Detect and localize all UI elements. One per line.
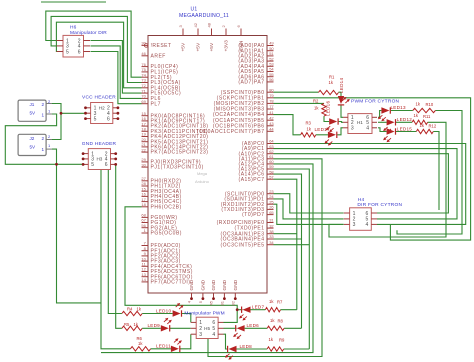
wire H6 pin6 to U1 PL7: [91, 52, 142, 104]
wire LED9 to H5 pin2: [170, 327, 191, 329]
svg-text:LED9: LED9: [148, 323, 161, 328]
wire H3 to R4: [108, 170, 122, 314]
U1 pin 15 PK0(ADC8PCINT16): [141, 111, 205, 119]
svg-text:+5V: +5V: [209, 42, 215, 51]
wire R7 to PC7 rail: [281, 309, 297, 311]
U1 pin 38 (OC3AAIN1)PE3: [220, 229, 274, 237]
U1 pin 11 PF4(ADC4TCK): [142, 262, 193, 270]
U1 pin 18 PH6(OC2B): [141, 202, 181, 210]
U1 pin 70 PL6: [141, 94, 161, 102]
LED LED7: [239, 307, 251, 321]
svg-text:H5: H5: [204, 326, 210, 331]
wire R10 rail to H4: [397, 111, 462, 235]
U1 pin 54 (AD5)PA5: [238, 67, 274, 75]
U1 pin 61 (A11)PC3: [239, 154, 275, 162]
LED LED15: [383, 128, 395, 142]
U1 power pin 2 +3V3: [221, 25, 229, 52]
wire LED15 to R12: [396, 131, 416, 133]
wire U1 PD0 to H4 pin1: [274, 194, 344, 213]
svg-text:6: 6: [107, 116, 110, 122]
svg-text:46: 46: [141, 51, 146, 56]
wire H5 pin6 to LED7: [224, 310, 238, 323]
svg-text:R8: R8: [278, 319, 284, 324]
U1 pin 78 (MOSIPCINT2)PB2: [214, 99, 275, 107]
resistor R4: [122, 311, 142, 315]
resistor R6: [130, 347, 150, 351]
resistor R9: [267, 347, 284, 351]
op-amp U1 MEGAARDUINO_11 body: [148, 36, 267, 294]
wire U1 PC0 to H4 pin4: [274, 144, 466, 225]
svg-text:H2: H2: [99, 106, 105, 111]
svg-text:PJ1(TXD3PCINT10): PJ1(TXD3PCINT10): [151, 165, 204, 171]
U1 pin 7 PF0(ADC0): [142, 241, 181, 249]
svg-text:AREF: AREF: [151, 53, 166, 59]
wire LED12 to R11: [396, 121, 412, 123]
connector J1: [18, 99, 52, 121]
svg-text:2: 2: [42, 136, 45, 141]
svg-text:PL7: PL7: [151, 101, 161, 107]
resistor R11: [412, 120, 428, 124]
LED LED6: [233, 325, 245, 339]
U1 pin 63 (A9)PC1: [242, 144, 275, 152]
svg-text:LED6: LED6: [247, 323, 260, 328]
svg-text:41: 41: [269, 110, 274, 115]
U1 pin 53 (AD4)PA4: [238, 62, 274, 70]
svg-text:(OC0AOC1CPCINT7)PB7: (OC0AOC1CPCINT7)PB7: [197, 129, 265, 135]
wire U1 PH6 to LED7 node: [125, 207, 237, 310]
svg-text:LED16: LED16: [326, 101, 331, 116]
svg-text:4: 4: [366, 222, 369, 228]
svg-text:78: 78: [269, 99, 274, 104]
U1 pin 42 (OC1APCINT5)PB5: [213, 115, 275, 123]
wire U1 PB1 wrap to H4: [274, 98, 471, 240]
junction 5V node: [60, 112, 63, 115]
U1 ground pin 4 GND: [187, 279, 195, 303]
svg-text:PG5(OC0B): PG5(OC0B): [151, 231, 182, 237]
U1 pin 9 PF2(ADC2): [142, 251, 181, 259]
wire H6 pin2 to U1 PL5: [91, 41, 142, 94]
junction LED7 node: [236, 308, 239, 311]
svg-text:+3V3: +3V3: [224, 40, 230, 52]
LED LED12: [383, 119, 395, 133]
svg-text:42: 42: [193, 22, 198, 27]
resistor R2: [322, 103, 326, 116]
LED LED16: [326, 118, 338, 132]
wire U1 PB4 to R3: [274, 115, 301, 135]
wire H3 to R6: [101, 170, 130, 349]
svg-text:5V: 5V: [30, 145, 37, 150]
wire H6 pin1 to U1 PL2: [46, 11, 142, 77]
svg-text:4: 4: [212, 332, 215, 338]
header H5 Manipulator PWM: [191, 317, 224, 338]
svg-text:PK7(ADC15PCINT23): PK7(ADC15PCINT23): [151, 150, 209, 156]
svg-text:H4: H4: [358, 197, 365, 203]
U1 pin 13 PF6(ADC6TDO): [141, 272, 193, 280]
svg-text:65: 65: [269, 210, 274, 215]
svg-text:71: 71: [141, 88, 146, 93]
U1 pin 73 PL3(OC5A): [141, 78, 180, 86]
U1 pin 76 PL0(ICP4): [141, 62, 178, 70]
svg-text:+VIN: +VIN: [239, 40, 245, 51]
wire top net segment: [41, 1, 106, 3]
svg-text:GND: GND: [189, 279, 195, 290]
svg-text:J2: J2: [30, 136, 35, 141]
U1 pin 71 PL5(OC5C): [141, 88, 181, 96]
svg-text:5: 5: [66, 49, 69, 55]
U1 ground pin 81 GND: [220, 279, 228, 305]
svg-text:33: 33: [269, 234, 274, 239]
wire U1 PC3 to H5: [208, 159, 322, 357]
wire R8 to PC6 rail: [284, 327, 301, 329]
svg-text:LED8: LED8: [240, 344, 253, 349]
wire 5V node to H2 pin3: [61, 112, 86, 114]
wire R1 to LED14: [339, 92, 342, 96]
U1 pin 65 (T0)PD7: [242, 210, 274, 218]
wire R3 to LED17: [316, 134, 328, 136]
connector J2: [18, 134, 52, 156]
U1 pin 49 (AD0)PA0: [238, 41, 274, 49]
svg-text:VCC HEADER: VCC HEADER: [82, 95, 116, 101]
svg-text:45: 45: [209, 300, 214, 305]
svg-text:6: 6: [105, 162, 108, 168]
svg-text:79: 79: [269, 93, 274, 98]
U1 pin 59 (A13)PC5: [239, 164, 275, 172]
svg-text:77: 77: [269, 104, 274, 109]
svg-text:H3: H3: [96, 157, 102, 162]
U1 pin 77 (MISOPCINT3)PB3: [214, 104, 275, 112]
wire J1 pin1 to H3 pin5 GND: [5, 114, 83, 164]
svg-text:2: 2: [42, 102, 45, 107]
U1 pin 56 (AD7)PA7: [238, 77, 274, 85]
svg-text:73: 73: [141, 78, 146, 83]
resistor R10: [413, 108, 436, 112]
svg-text:LED10: LED10: [156, 308, 171, 313]
U1 pin 23 (SCLINT0)PD0: [225, 189, 275, 197]
U1 pin 20 PK5(ADC13PCINT21): [141, 137, 208, 145]
wire R9 to PC5 rail: [284, 348, 310, 350]
wire LED16 to H1 pin2: [339, 121, 343, 124]
wire U1 PD1 to H4 pin2: [274, 199, 344, 219]
header H3 GND HEADER: [82, 149, 117, 170]
U1 pin 62 (A10)PC2: [239, 149, 275, 157]
svg-text:76: 76: [141, 62, 146, 67]
wire U1 PC1 to H4 pin5: [274, 149, 458, 219]
U1 pin 33 (OC3BAIN4)PE4: [220, 234, 274, 242]
wire U1 PB0 to R1: [274, 91, 319, 93]
svg-text:PWM FOR CYTRON: PWM FOR CYTRON: [351, 99, 400, 105]
svg-text:Manipulator DIR: Manipulator DIR: [70, 30, 107, 36]
svg-text:6: 6: [78, 49, 81, 55]
U1 power pin 42 +5V: [193, 22, 201, 51]
U1 pin 27 PH0(RXD2): [141, 176, 181, 184]
svg-text:LED13: LED13: [391, 105, 406, 110]
U1 power pin 3 +5V: [178, 25, 186, 52]
svg-text:42: 42: [269, 115, 274, 120]
U1 pin 60 (A12)PC4: [239, 159, 275, 167]
U1 pin 29 PJ0(RXD3PCINT9): [141, 157, 201, 165]
wire R2 to LED16: [324, 116, 329, 121]
resistor R1: [318, 90, 338, 94]
wire U1 PC7 down: [274, 179, 297, 310]
U1 pin 21 PK6(ADC14PCINT22): [141, 142, 208, 150]
svg-text:(OC3CINT5)PE5: (OC3CINT5)PE5: [220, 242, 264, 248]
LED LED14: [338, 96, 350, 105]
resistor R5: [122, 326, 142, 330]
svg-text:R12: R12: [429, 123, 437, 128]
wire U1 PC4 to GND rail: [101, 164, 313, 353]
wire U1 PC2 to H4 pin6: [274, 154, 449, 213]
wire GND rail left: [57, 164, 102, 303]
svg-text:R1: R1: [329, 75, 335, 80]
svg-text:74: 74: [141, 72, 146, 77]
U1 pin 22 PK7(ADC15PCINT23): [141, 147, 208, 155]
svg-text:R4: R4: [127, 307, 133, 312]
resistor R7: [265, 308, 280, 312]
U1 pin 75 PL1(ICP5): [141, 67, 178, 75]
svg-text:30: 30: [141, 162, 146, 167]
U1 pin 31 (RXD0PCIN8)PE0: [217, 218, 275, 226]
svg-text:+5V: +5V: [181, 42, 187, 51]
wire J1 pin2 to J2 pin2: [52, 104, 61, 140]
svg-text:U1: U1: [191, 7, 198, 13]
wire H5 pin5 to LED6: [224, 327, 237, 329]
wire LED14 to H1 pin1: [341, 105, 343, 118]
LED LED11: [171, 338, 182, 352]
svg-text:70: 70: [141, 94, 146, 99]
wire H1 pin4 to LED15: [378, 128, 387, 132]
wire R5 to LED9: [142, 327, 161, 329]
svg-text:5: 5: [94, 116, 97, 122]
U1 pin 56 PG2(ALE): [141, 223, 177, 231]
wire J2 pin1 to GND row: [52, 149, 57, 164]
U1 pin 1 PG5(OC0B): [142, 228, 182, 236]
svg-text:80: 80: [269, 87, 274, 92]
svg-text:H1: H1: [357, 120, 363, 125]
svg-text:81: 81: [220, 300, 225, 305]
U1 pin 17 PH5(OC4C): [141, 197, 182, 205]
U1 pin 12 PF5(ADC5TMS): [141, 267, 193, 275]
U1 pin 55 (AD6)PA6: [238, 72, 274, 80]
wire H1 pin6 to LED13: [378, 111, 381, 118]
U1 pin 19 PK4(ADC12PCINT20): [141, 132, 208, 140]
U1 pin 51 (AD2)PA2: [238, 51, 274, 59]
svg-text:J1: J1: [30, 102, 35, 107]
junction GND rail: [55, 163, 58, 166]
svg-text:57: 57: [269, 174, 274, 179]
U1 power pin 48 +5V: [207, 22, 215, 51]
svg-text:1: 1: [42, 113, 45, 118]
U1 pin 10 PF3(ADC3): [141, 256, 180, 264]
wire U1 PC6 down: [274, 174, 302, 328]
U1 pin 28 PH1(TXD2): [141, 181, 180, 189]
svg-text:LED17: LED17: [315, 127, 330, 132]
svg-text:24: 24: [269, 194, 274, 199]
svg-text:LED14: LED14: [339, 78, 344, 93]
svg-text:1: 1: [42, 147, 45, 152]
wire R11 rail to H4: [329, 122, 446, 237]
svg-text:3: 3: [353, 222, 356, 228]
U1 pin 72 PL4(OC5B): [141, 83, 180, 91]
wire H1 pin5 to LED12: [378, 121, 387, 123]
wire H5 pin4 to LED8: [224, 334, 229, 349]
wire node to LED7: [237, 309, 242, 311]
U1 pin 80 (SSPCINT0)PB0: [221, 87, 275, 95]
U1 pin 41 (OC2APCINT4)PB4: [213, 110, 275, 118]
U1 pin 26 (TXD1INT3)PD3: [221, 205, 274, 213]
svg-text:31: 31: [269, 218, 274, 223]
U1 pin 25 (RXD1INT2)PD2: [221, 199, 275, 207]
wire LED11 to H5 pin3: [180, 334, 191, 349]
svg-text:R7: R7: [277, 299, 283, 304]
U1 power pin 6 +VIN: [236, 25, 244, 52]
wire LED10 to H5 pin1: [182, 314, 191, 323]
header H2 VCC HEADER: [84, 103, 119, 124]
U1 pin 32 (TXD0)PE1: [234, 223, 274, 231]
svg-text:34: 34: [269, 240, 274, 245]
svg-text:3: 3: [199, 332, 202, 338]
svg-text:LED12: LED12: [397, 117, 412, 122]
svg-text:44: 44: [269, 127, 274, 132]
wire H3 pin6 to R5: [116, 164, 122, 328]
svg-text:GND: GND: [200, 279, 206, 290]
svg-text:GND: GND: [233, 279, 239, 290]
U1 pin 30 PJ1(TXD3PCINT10): [141, 162, 203, 170]
svg-text:69: 69: [141, 99, 146, 104]
U1 pin 46 AREF: [141, 51, 165, 59]
wire H6 pin3 to U1 PL3: [51, 16, 141, 82]
svg-text:Mega: Mega: [197, 171, 208, 176]
U1 pin 74 PL2(T5): [141, 72, 172, 80]
U1 pin 67 PG1(!RD): [141, 218, 176, 226]
U1 pin 16 PH4(OC4B): [141, 192, 181, 200]
U1 ground pin 45 GND: [209, 279, 217, 305]
svg-text:R2: R2: [313, 99, 319, 104]
U1 pin 30 !RESET: [141, 41, 171, 49]
wire U1 PE4: [274, 238, 302, 240]
svg-text:R3: R3: [306, 121, 312, 126]
wire U1 PE3: [274, 233, 297, 235]
wire R6 to LED11: [151, 348, 171, 350]
U1 pin 15 PH3(OC4A): [141, 186, 181, 194]
svg-text:5: 5: [91, 162, 94, 168]
svg-text:LED7: LED7: [252, 305, 265, 310]
resistor R3: [301, 133, 316, 137]
U1 ground pin 5 GND: [198, 279, 206, 303]
svg-text:48: 48: [207, 22, 212, 27]
U1 ground pin 82 GND: [231, 279, 239, 305]
U1 pin 79 (SCKPCINT1)PB1: [217, 93, 275, 101]
wire LED7 to R7: [251, 309, 266, 311]
svg-text:+5V: +5V: [196, 42, 202, 51]
LED LED13: [378, 107, 390, 121]
svg-text:PH6(OC2B): PH6(OC2B): [151, 204, 182, 210]
svg-text:82: 82: [231, 300, 236, 305]
svg-text:R10: R10: [426, 102, 434, 107]
svg-text:Arduino: Arduino: [195, 179, 210, 184]
resistor R12: [416, 129, 433, 133]
wire H6 pin5 to U1 PL4: [56, 22, 141, 88]
wire U1 PD2 to H4 pin3: [274, 204, 344, 224]
U1 pin 69 PL7: [141, 99, 161, 107]
svg-text:GND: GND: [211, 279, 217, 290]
LED LED10: [173, 303, 184, 317]
wire U1 PC5 down: [274, 169, 310, 349]
U1 pin 18 PK3(ADC11PCINT19): [141, 127, 208, 135]
svg-text:18: 18: [141, 202, 146, 207]
header H1 PWM FOR CYTRON: [343, 114, 377, 134]
wire R4 to LED10: [142, 313, 172, 315]
U1 pin 57 (A15)PC7: [239, 174, 275, 182]
svg-text:30: 30: [141, 41, 146, 46]
wire U1 PB2 to R2: [274, 102, 325, 104]
svg-text:32: 32: [269, 223, 274, 228]
svg-text:GND: GND: [222, 279, 228, 290]
svg-text:38: 38: [269, 229, 274, 234]
wire LED13 to R10: [391, 110, 413, 112]
wire U1 PE5: [274, 244, 310, 246]
U1 pin 24 (SDAINT1)PD1: [224, 194, 274, 202]
wire LED17 to H1 pin3: [337, 128, 343, 135]
svg-text:R5: R5: [124, 322, 130, 327]
svg-text:3: 3: [351, 126, 354, 132]
U1 pin 52 (AD3)PA3: [238, 56, 274, 64]
svg-text:14: 14: [141, 277, 146, 282]
svg-text:MEGAARDUINO_11: MEGAARDUINO_11: [179, 13, 229, 19]
svg-text:72: 72: [141, 83, 146, 88]
svg-text:!RESET: !RESET: [151, 43, 172, 49]
U1 pin 16 PK1(ADC9PCINT17): [141, 116, 205, 124]
U1 pin 44 (OC0AOC1CPCINT7)PB7: [197, 127, 275, 135]
wire R12 rail: [433, 132, 439, 211]
svg-text:75: 75: [141, 67, 146, 72]
svg-text:R11: R11: [423, 114, 431, 119]
LED LED9: [161, 318, 172, 332]
wire H6 pin4 to U1 PL6: [91, 46, 142, 99]
header H4 DIR FOR CYTRON: [344, 208, 377, 231]
header H6 Manipulator DIR: [57, 35, 91, 57]
svg-text:43: 43: [269, 121, 274, 126]
svg-text:LED11: LED11: [156, 344, 171, 349]
svg-text:Manipulator PWM: Manipulator PWM: [184, 311, 224, 317]
resistor R8: [267, 326, 284, 330]
svg-text:LED15: LED15: [397, 126, 412, 131]
svg-text:H6: H6: [70, 25, 77, 31]
svg-text:(AD7)PA7: (AD7)PA7: [238, 80, 264, 86]
U1 pin 43 (OC1BPCINT6)PB6: [213, 121, 275, 129]
svg-text:(T0)PD7: (T0)PD7: [242, 212, 264, 218]
U1 pin 68 PG0(!WR): [141, 213, 177, 221]
wire LED8 to R9: [237, 348, 268, 350]
U1 pin 8 PF1(ADC1): [142, 246, 181, 254]
U1 pin 34 (OC3CINT5)PE5: [220, 240, 274, 248]
U1 pin 58 (A14)PC6: [239, 169, 275, 177]
svg-text:PF7(ADC7TDI): PF7(ADC7TDI): [151, 280, 191, 286]
LED LED8: [225, 346, 237, 360]
svg-text:56: 56: [269, 77, 274, 82]
svg-text:GND HEADER: GND HEADER: [82, 141, 117, 147]
svg-text:R9: R9: [279, 338, 285, 343]
svg-text:4: 4: [366, 126, 369, 132]
LED LED17: [324, 132, 336, 146]
U1 pin 17 PK2(ADC10PCINT18): [141, 121, 208, 129]
svg-text:22: 22: [141, 147, 146, 152]
U1 pin 64 (A8)PC0: [242, 139, 275, 147]
svg-text:(A15)PC7: (A15)PC7: [239, 177, 265, 183]
wire LED6 to R8: [245, 327, 268, 329]
U1 pin 50 (AD1)PA1: [238, 46, 274, 54]
svg-text:56: 56: [141, 223, 146, 228]
svg-text:5V: 5V: [30, 110, 37, 115]
